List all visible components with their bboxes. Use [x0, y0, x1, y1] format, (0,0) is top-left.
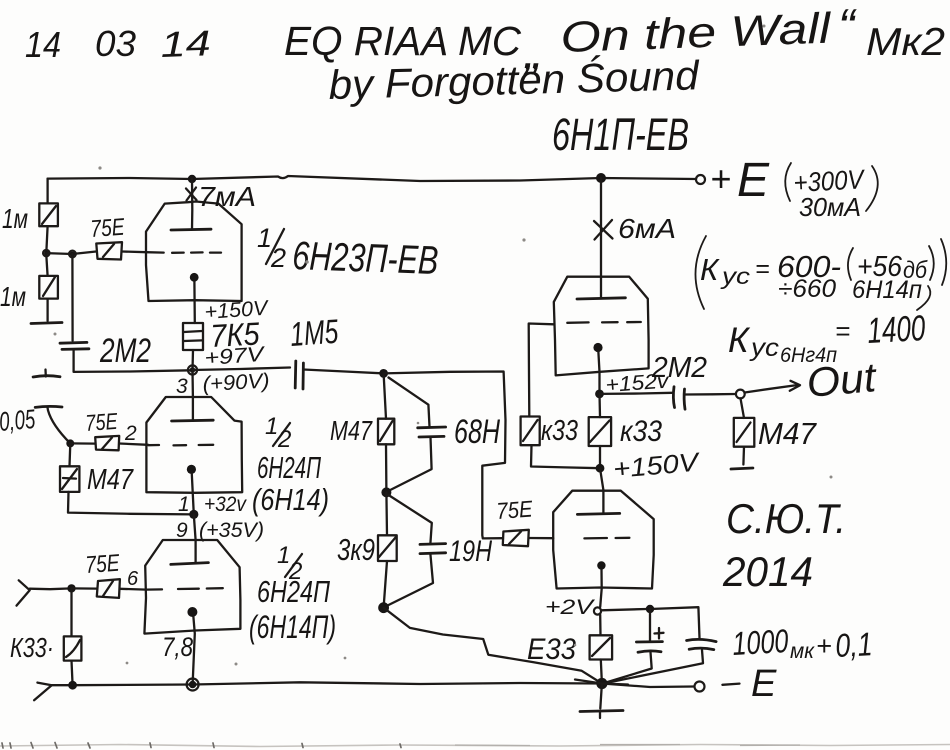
svg-text:1: 1 [178, 493, 190, 516]
tube V2 anode [172, 370, 214, 421]
pin 2 label [124, 422, 137, 445]
wire 2M2 branch down [71, 254, 73, 341]
svg-text:1м: 1м [2, 203, 28, 234]
capacitor 1M5 coupling [295, 361, 303, 389]
svg-text:75Е: 75Е [85, 408, 119, 436]
wire +2V node right run [601, 607, 700, 638]
wire +97 node to 1M5 [193, 368, 291, 371]
node junction riaa top [379, 369, 388, 378]
label +97V [204, 343, 267, 370]
svg-text:2: 2 [270, 243, 286, 273]
svg-text:+150V: +150V [612, 446, 702, 484]
pin 6 label [127, 568, 139, 590]
node junction input rail [68, 681, 77, 690]
svg-text:30мА: 30мА [799, 192, 861, 222]
svg-text:1: 1 [265, 413, 278, 440]
svg-text:Мк2: Мк2 [866, 21, 945, 64]
note Kus 6N14P = 1400 [728, 307, 926, 367]
wire grid4 to K33 left [529, 324, 554, 417]
svg-text:6мА: 6мА [618, 213, 676, 244]
resistor R 1M upper [39, 203, 58, 226]
label 7K5 [209, 315, 260, 354]
arrow out [745, 381, 800, 393]
svg-text:75Е: 75Е [496, 496, 534, 524]
wire 2M2 bottom to +97 node [74, 349, 191, 372]
label 2M2 left [99, 332, 151, 370]
label 1/2 6N24P (6N14P) [249, 542, 336, 645]
svg-text:ус: ус [749, 334, 780, 362]
node junction ground star [575, 678, 628, 689]
svg-text:0,05: 0,05 [0, 404, 37, 437]
wire +152 node to output cap [600, 393, 672, 394]
label 19H [449, 535, 492, 568]
note year 2014 [722, 548, 813, 595]
label 1/2 6N23P-EV [257, 223, 439, 283]
capacitor 2M2 left [60, 342, 89, 349]
tube V5 half 6N1P-EV lower envelope [553, 491, 654, 589]
node junction dot tube1 anode on rail [188, 175, 196, 183]
pin 1 and +32v labels [178, 493, 247, 516]
resistor 7K5 anode load [183, 323, 203, 350]
label K33 input [10, 632, 54, 663]
node junction grid2 [66, 439, 74, 447]
tube V5 grid dashed [584, 537, 629, 540]
node junction grid1 [43, 250, 49, 256]
resistor 75E tube5 grid [503, 530, 529, 546]
node junction +97V [188, 365, 197, 374]
label 75E tube5 [496, 496, 534, 524]
svg-text:1: 1 [257, 223, 272, 253]
label K33 left [541, 415, 578, 447]
resistor K33 cathode5 [590, 615, 613, 660]
wire 75E to tube2 grid [119, 444, 148, 445]
node junction +152V [595, 390, 604, 399]
label M47 left [87, 464, 135, 496]
wire junction to 75E tube3 [72, 587, 97, 589]
svg-text:3к9: 3к9 [337, 532, 375, 567]
svg-text:9: 9 [176, 519, 188, 542]
label 75E tube1 [90, 214, 127, 243]
svg-text:2014: 2014 [722, 548, 813, 595]
label M47 output [758, 416, 818, 451]
svg-text:=: = [755, 255, 770, 283]
label 75E tube3 [85, 550, 122, 579]
tube V3 anode [171, 563, 209, 565]
label K33 cathode5 [527, 633, 576, 666]
terminal +2V circle [594, 607, 601, 614]
wire junction to 75E tube2 [70, 442, 95, 445]
label +E (+300V) 30mA [710, 154, 878, 222]
note gain formula Kus=600-(+56db)/660 6N14P [695, 236, 946, 310]
resistor 75E tube3 [97, 579, 120, 598]
node junction grid3 [67, 584, 75, 592]
svg-text:19Н: 19Н [449, 535, 492, 568]
wire riaa bottom to ground node [384, 608, 602, 684]
tube V2 grid dashed [148, 444, 213, 447]
current mark X 6mA [594, 213, 676, 244]
terminal -E circle [695, 682, 705, 692]
label 1000mk + 0,1 [731, 622, 873, 664]
tube V2 half 6N24P envelope [146, 397, 242, 493]
tube V4 anode [577, 178, 625, 299]
label 1/2 6N24P (6N14) [252, 413, 329, 517]
tube V1 grid dashed [146, 251, 221, 254]
resistor 75E tube1 grid [96, 242, 122, 259]
svg-text:к33: к33 [620, 415, 662, 448]
svg-text:6Н24П: 6Н24П [257, 574, 330, 609]
svg-text:75Е: 75Е [90, 214, 127, 243]
pin 3 label [176, 375, 188, 398]
svg-text:Е: Е [737, 154, 770, 207]
svg-text:03: 03 [95, 23, 136, 64]
current mark X 7mA [186, 181, 256, 212]
wire K33 to ground node [601, 660, 602, 684]
svg-text:by Forgottën Śound: by Forgottën Śound [328, 52, 700, 108]
svg-text:=: = [835, 316, 850, 346]
scan artifacts bottom edge [0, 743, 950, 749]
resistor K33 right [589, 394, 611, 446]
svg-text:+97V: +97V [204, 343, 267, 370]
label 0,05 [0, 404, 37, 437]
svg-text:(+35V): (+35V) [199, 519, 264, 542]
label +150V [204, 297, 270, 324]
wire rail to R1 [46, 179, 48, 204]
svg-text:к33: к33 [541, 415, 578, 447]
label 3k9 [337, 532, 375, 567]
svg-text:68Н: 68Н [454, 413, 500, 451]
svg-text:+2V: +2V [545, 596, 596, 619]
label (+90V) [202, 370, 270, 396]
label 2M2 output [651, 352, 707, 384]
label +150V out [612, 446, 702, 484]
svg-text:14: 14 [25, 24, 61, 65]
svg-text:6Н14п: 6Н14п [852, 276, 922, 304]
capacitor 0,1 film [604, 639, 716, 683]
wire 75E to tube3 grid [120, 588, 146, 591]
svg-text:Е: Е [751, 663, 777, 705]
svg-text:“: “ [838, 0, 857, 55]
svg-text:(6Н14): (6Н14) [252, 482, 329, 517]
svg-text:1400: 1400 [866, 307, 926, 351]
tube V1 anode [171, 179, 211, 230]
wire 1M5 to riaa top junction [303, 370, 383, 374]
terminal out circle [736, 390, 745, 399]
label -E [722, 663, 777, 705]
tube type label 6N1P-EV [552, 109, 689, 160]
wire bottom -E rail [52, 682, 602, 685]
wire output cap to out node [685, 393, 736, 396]
wire input to grid3 junction [30, 587, 72, 590]
svg-text:2М2: 2М2 [651, 352, 707, 384]
title by Forgotten Sound [328, 52, 700, 108]
svg-text:ус: ус [720, 263, 751, 289]
wire riaa top to right drop [384, 372, 506, 539]
title EQ RIAA MC "On the Wall" Mk2 [284, 0, 945, 79]
title date 14 03 14 [25, 22, 211, 65]
label K33 right [620, 415, 662, 448]
svg-text:6: 6 [127, 568, 139, 590]
svg-text:+: + [816, 631, 832, 661]
tube V4 grid dashed [567, 321, 641, 324]
ground main star [580, 684, 623, 719]
svg-text:1000: 1000 [731, 622, 789, 662]
input arrow upper [17, 580, 30, 605]
wire K33 left to +150 node [531, 445, 600, 468]
input arrow lower [34, 683, 52, 701]
tube V3 cathode [187, 607, 197, 685]
terminal +E circle [696, 175, 705, 184]
svg-text:6Н24П: 6Н24П [257, 450, 321, 485]
ground below 1M lower [31, 299, 62, 324]
tube V1 cathode [190, 273, 199, 323]
svg-text:7мА: 7мА [198, 181, 256, 212]
label +2V [545, 596, 596, 619]
svg-text:2: 2 [124, 422, 137, 445]
resistor M47 feedback [60, 443, 79, 492]
note signature S.Yu.T. [726, 495, 846, 542]
wire cathode2 to tube3 anode [194, 514, 196, 563]
svg-text:2М2: 2М2 [99, 332, 151, 370]
svg-text:14: 14 [160, 22, 211, 65]
wire 3k9 to bottom junction [384, 561, 387, 608]
svg-text:75Е: 75Е [85, 550, 122, 579]
pin 9 and +35V labels [176, 519, 264, 542]
svg-text:1М5: 1М5 [289, 313, 340, 354]
svg-text:(+90V): (+90V) [202, 370, 270, 396]
svg-text:М47: М47 [758, 416, 818, 451]
wire 75E to tube5 grid [529, 537, 553, 540]
svg-text:6Н1П-ЕВ: 6Н1П-ЕВ [552, 109, 689, 160]
resistor K33 input [64, 588, 82, 660]
resistor 75E tube2 [95, 436, 119, 450]
label M47 riaa [330, 415, 373, 446]
tube V3 grid dashed [146, 588, 223, 589]
node junction riaa mid [381, 487, 391, 497]
resistor 3k9 [378, 492, 397, 561]
wire rail to -E terminal [602, 684, 694, 688]
svg-text:К33·: К33· [10, 632, 54, 663]
svg-text:+: + [710, 158, 731, 199]
label 1M upper [2, 203, 28, 234]
node junction 1000u top [646, 605, 654, 613]
capacitor 2M2 output [673, 387, 685, 409]
svg-text:К: К [728, 321, 751, 360]
label 68H [454, 413, 500, 451]
resistor M47 output load [734, 398, 755, 446]
svg-text:Е33: Е33 [527, 633, 576, 666]
node junction cathode3 rail [187, 679, 199, 691]
label Out [805, 354, 879, 406]
wire K33 right to +150 node [599, 446, 601, 468]
scan specks [54, 25, 833, 666]
svg-text:К: К [700, 252, 720, 287]
wire M47 to mid junction [385, 444, 388, 492]
resistor M47 riaa [378, 373, 394, 444]
wire 7K5 to +97 node [191, 350, 194, 370]
svg-text:6Нг4п: 6Нг4п [780, 344, 837, 367]
node junction +150V [596, 464, 605, 473]
capacitor 19H [387, 495, 446, 606]
tube V5 cathode [597, 561, 605, 607]
wire 75E to tube1 grid [122, 250, 146, 253]
capacitor 1000u electrolytic [604, 609, 664, 683]
node junction dot tube4 anode on rail [596, 173, 606, 183]
wire R1 to junction [46, 226, 47, 253]
svg-text:6Н23П-ЕВ: 6Н23П-ЕВ [292, 234, 439, 283]
label 1M lower [0, 281, 26, 312]
wire junction row to 75E [46, 252, 96, 255]
svg-text:М47: М47 [330, 415, 373, 446]
svg-text:7,8: 7,8 [162, 632, 193, 662]
capacitor 68H [389, 378, 446, 491]
tube V4 half 6N1P-EV upper envelope [554, 277, 649, 376]
resistor K33 left [521, 417, 540, 446]
svg-text:+32v: +32v [204, 493, 247, 516]
pin 7,8 label [162, 632, 193, 662]
svg-text:М47: М47 [87, 464, 135, 496]
node junction 2M2 branch [69, 251, 76, 258]
resistor R 1M lower [39, 255, 58, 299]
svg-text:мк: мк [790, 640, 815, 663]
tube V4 cathode [593, 343, 602, 394]
svg-text:÷660: ÷660 [778, 275, 836, 303]
tube V5 anode [577, 468, 619, 514]
tube V1 half 6N23P-EV envelope [146, 202, 242, 302]
label 1M5 [289, 313, 340, 354]
node junction riaa bottom [378, 602, 389, 613]
node junction cathode2 pin1 [189, 510, 198, 519]
ground below M47 output [731, 447, 753, 469]
tube V3 half 6N24P envelope [144, 540, 240, 634]
label +152v [605, 370, 671, 397]
svg-text:1м: 1м [0, 281, 26, 312]
svg-text:3: 3 [176, 375, 188, 398]
wire M47 to cathode2 [68, 492, 194, 515]
svg-text:0,1: 0,1 [834, 625, 873, 664]
svg-text:С.Ю.Т.: С.Ю.Т. [726, 495, 846, 542]
capacitor 0,05 input [33, 370, 70, 444]
wire K33 to bottom rail [72, 661, 73, 686]
tube V2 cathode [187, 465, 196, 515]
label 75E tube2 [85, 408, 119, 436]
svg-text:(6Н14П): (6Н14П) [249, 609, 336, 645]
svg-text:2: 2 [277, 426, 291, 453]
wire top +E rail [48, 176, 696, 181]
